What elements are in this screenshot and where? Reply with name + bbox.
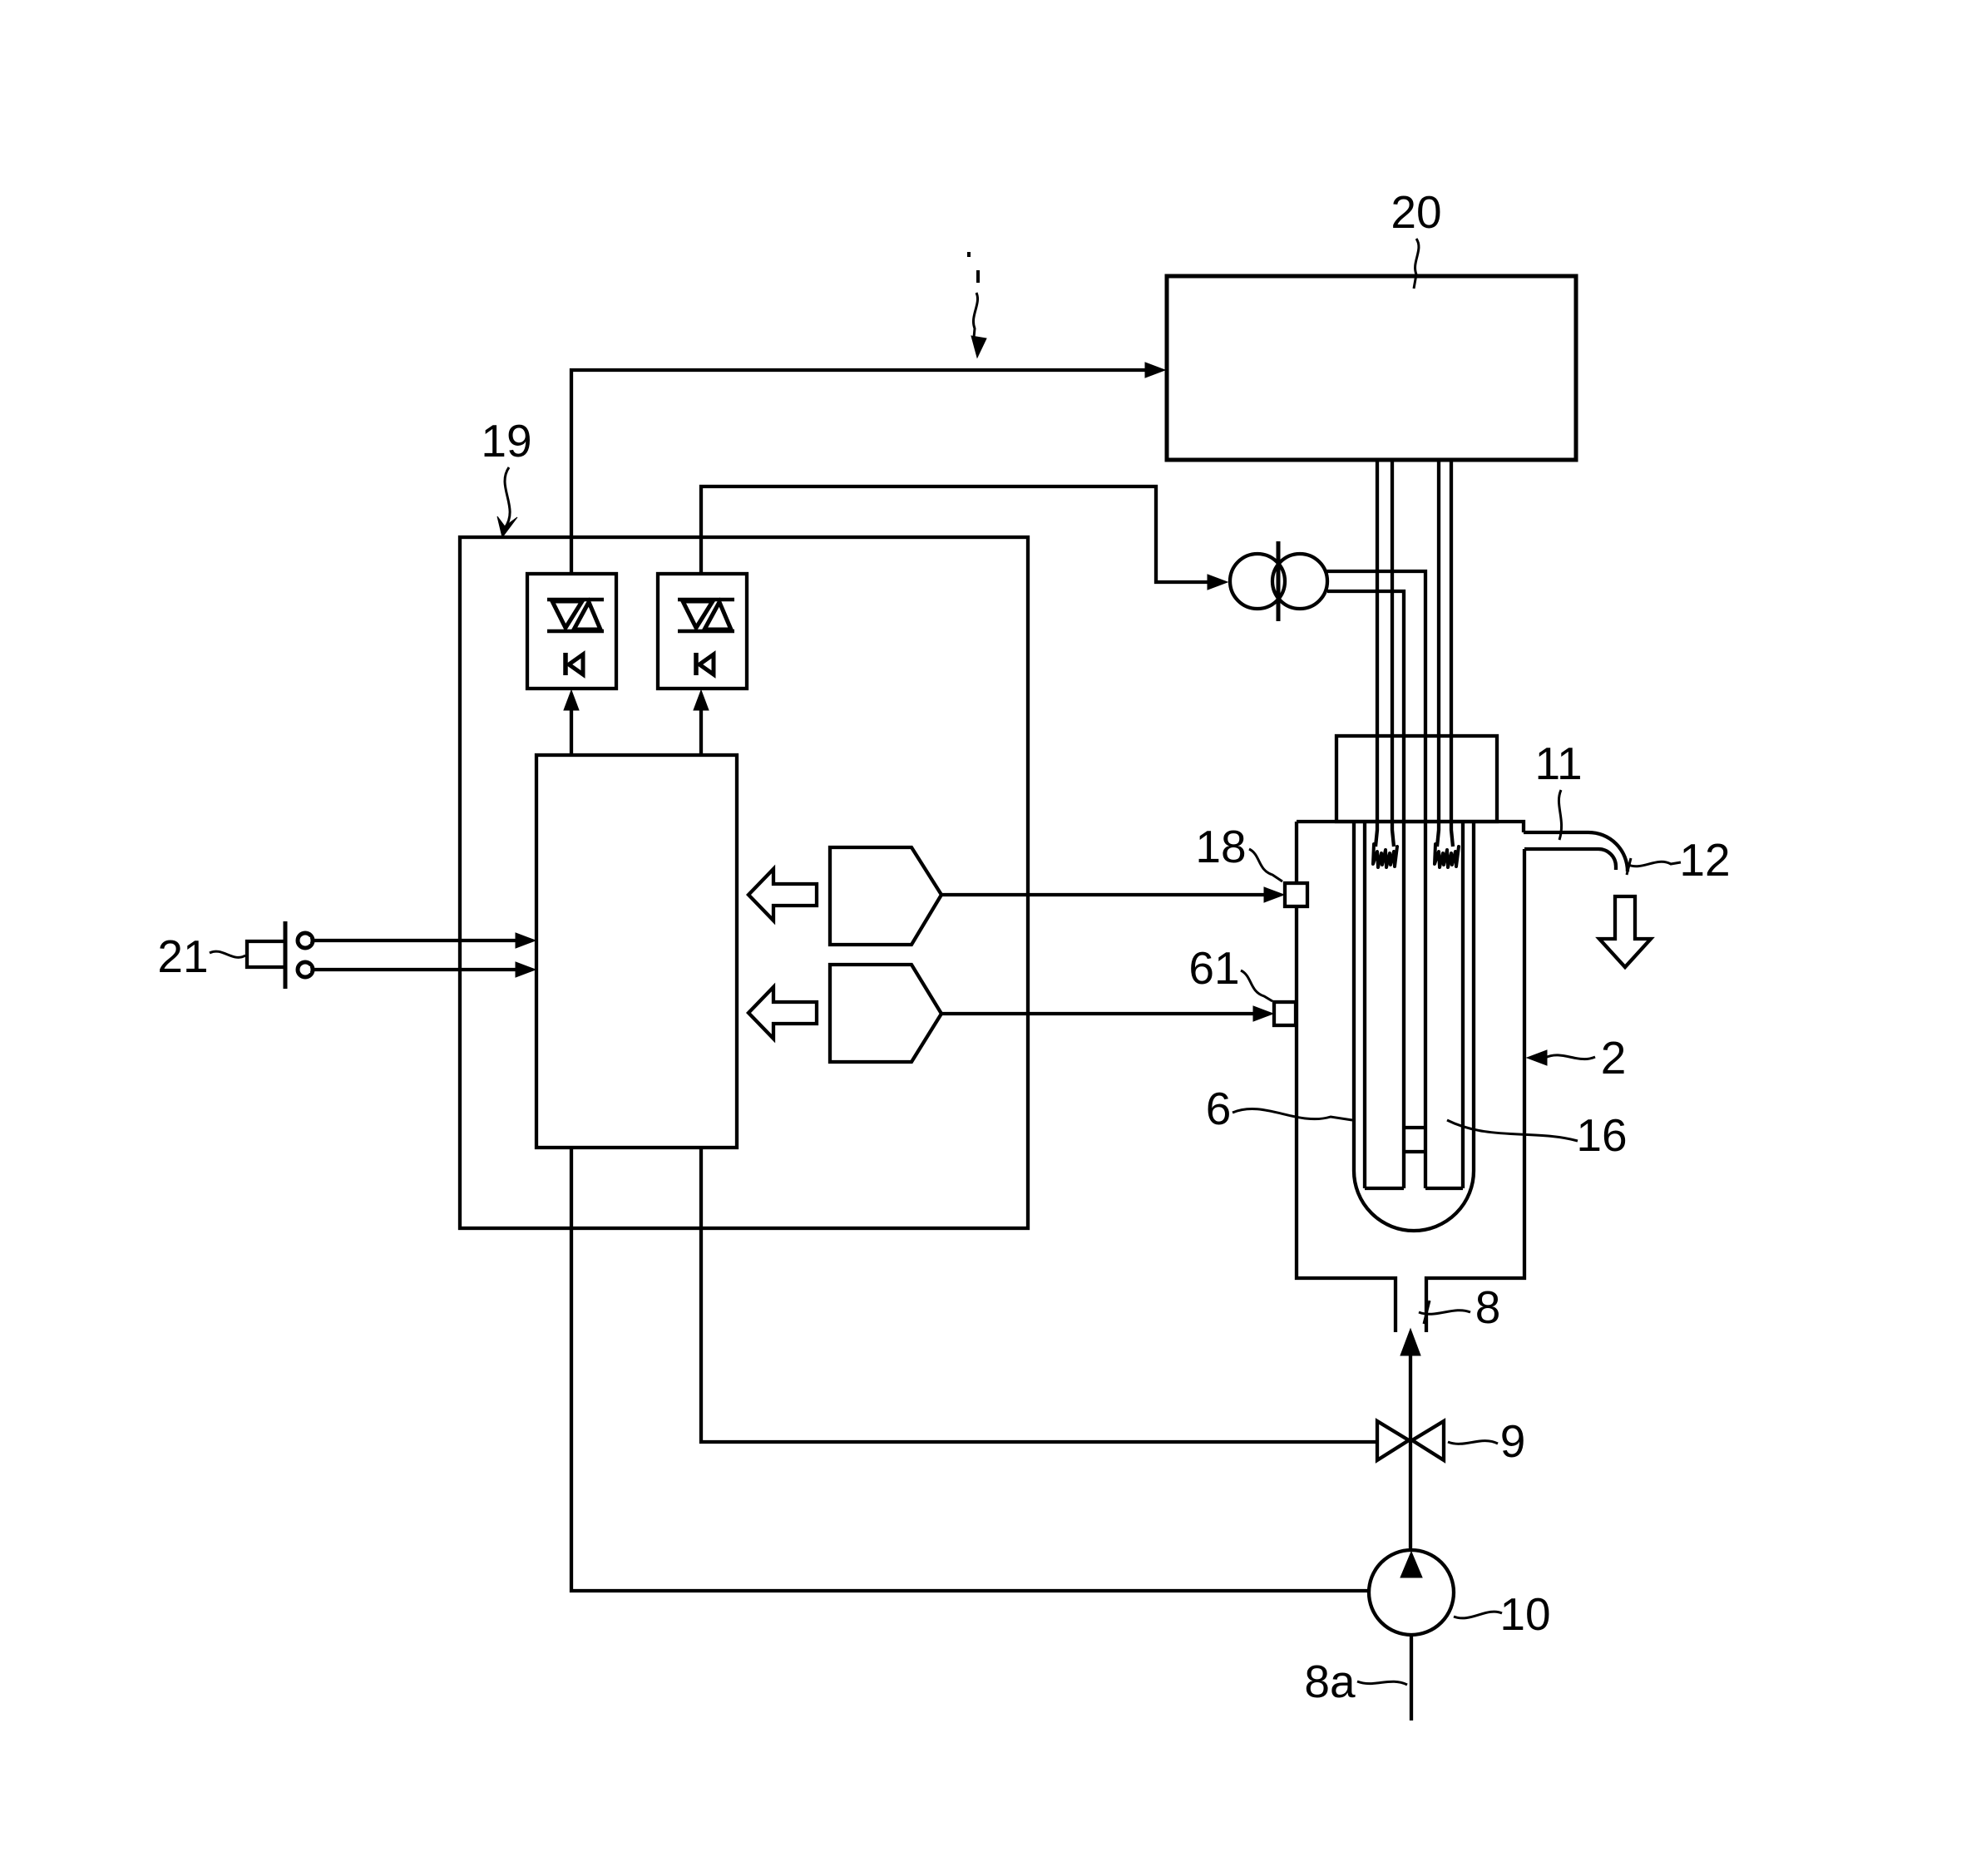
svg-text:8: 8	[1475, 1281, 1501, 1333]
arrow controller to SSR1	[570, 705, 573, 755]
leader squiggle for 20	[1414, 239, 1419, 289]
wire pentagon to square 61	[941, 1012, 1261, 1015]
vessel 2	[1297, 822, 1524, 832]
leader arrow for 2	[1527, 1050, 1547, 1065]
gland block	[1336, 736, 1497, 822]
wire w3 from box 20	[1437, 460, 1439, 847]
leader squiggle for 10	[1454, 1612, 1502, 1618]
svg-text:21: 21	[157, 931, 208, 982]
wire SSR2 to CT	[701, 486, 1208, 582]
LED diode V1	[566, 653, 583, 675]
CT secondary upper	[1326, 571, 1425, 1188]
hollow arrow lower	[748, 987, 817, 1039]
heater leg left walls	[1363, 822, 1366, 1188]
leader squiggle for 16	[1447, 1120, 1578, 1141]
svg-text:20: 20	[1391, 186, 1441, 238]
outlet pipe 11	[1524, 832, 1628, 871]
wire controller to pump	[571, 1148, 1369, 1591]
hollow flow arrow down	[1599, 896, 1651, 967]
box 20 (power supply)	[1167, 276, 1576, 460]
leader squiggle for 18	[1249, 849, 1282, 881]
wire 21b into controller	[314, 968, 520, 971]
leader squiggle for 21	[210, 951, 245, 957]
box 19 (control cabinet)	[460, 537, 1028, 1228]
heater coil right	[1435, 844, 1459, 867]
wire 21a into controller	[314, 939, 520, 942]
leader squiggle for 9	[1448, 1441, 1498, 1444]
hollow arrow upper	[748, 869, 817, 921]
leader arrow for 19	[505, 467, 510, 528]
arrow controller to SSR2	[699, 705, 703, 755]
svg-text:19: 19	[481, 415, 531, 467]
svg-text:2: 2	[1601, 1032, 1627, 1084]
svg-text:8a: 8a	[1304, 1656, 1356, 1707]
svg-text:18: 18	[1195, 821, 1246, 872]
LED diode V2	[696, 653, 714, 675]
wire SSR1 to box 20	[571, 370, 1161, 574]
leader squiggle for 61	[1241, 970, 1272, 1001]
sensor pentagon 18s	[830, 847, 941, 945]
CT current transformer	[1230, 541, 1327, 621]
tube 6	[1354, 822, 1474, 1231]
SSR box V1	[527, 574, 616, 689]
square sensor 18	[1285, 883, 1307, 906]
CT secondary lower	[1327, 591, 1404, 1188]
inlet arrow into pipe 8	[1400, 1329, 1420, 1355]
triac symbol V2	[678, 600, 734, 631]
square sensor 61	[1274, 1002, 1296, 1025]
svg-text:9: 9	[1500, 1415, 1526, 1467]
inlet line 8a	[1410, 1635, 1413, 1720]
controller box U19	[536, 755, 737, 1148]
SSR box V2	[658, 574, 747, 689]
leader squiggle for 12 with tick	[1627, 858, 1631, 875]
leader 1 (dash dot arrow)	[969, 252, 986, 358]
svg-text:10: 10	[1499, 1588, 1550, 1640]
leader squiggle for 6	[1233, 1109, 1352, 1120]
wire w2 from box 20	[1392, 460, 1394, 847]
heater leg right walls	[1461, 822, 1465, 1188]
pump 10	[1369, 1550, 1454, 1635]
wire w1 from box 20	[1376, 460, 1377, 847]
triac symbol V1	[547, 600, 604, 631]
wire w4 from box 20	[1451, 460, 1453, 847]
svg-text:12: 12	[1679, 834, 1730, 886]
wire pentagon to square 18	[941, 893, 1271, 896]
leader squiggle for 8a	[1357, 1681, 1407, 1685]
svg-text:61: 61	[1188, 942, 1239, 994]
wire controller to valve	[701, 1148, 1377, 1442]
svg-text:6: 6	[1206, 1083, 1232, 1134]
heater coil left	[1373, 844, 1397, 867]
bridge 16	[1404, 1126, 1425, 1129]
svg-text:11: 11	[1534, 738, 1582, 789]
leader squiggle for 8 with tick	[1424, 1301, 1430, 1324]
svg-text:16: 16	[1576, 1109, 1627, 1161]
terminal symbol 21	[247, 921, 313, 989]
leader squiggle for 11	[1559, 790, 1561, 840]
sensor pentagon 61s	[830, 965, 941, 1062]
valve 9	[1377, 1421, 1409, 1460]
